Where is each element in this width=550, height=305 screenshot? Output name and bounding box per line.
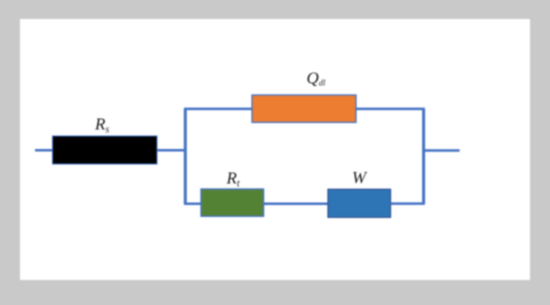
svg-text:W: W — [352, 168, 368, 187]
resistor Rs — [53, 136, 158, 164]
wire: Rs to left junction — [157, 149, 186, 152]
node: right junction vertical wire — [422, 109, 425, 204]
wire: top branch left — [184, 108, 252, 111]
wire: right terminal — [424, 149, 460, 152]
wire: left terminal — [35, 149, 53, 152]
wire: bottom branch left — [184, 203, 201, 206]
Warburg element W — [328, 189, 391, 217]
node: left junction vertical wire — [184, 109, 187, 204]
wire: bottom branch right — [391, 202, 425, 205]
wire: top branch right — [356, 108, 425, 111]
CPE Qdl — [252, 95, 356, 122]
wire: Rt to W — [264, 203, 329, 206]
resistor Rt — [201, 189, 264, 216]
